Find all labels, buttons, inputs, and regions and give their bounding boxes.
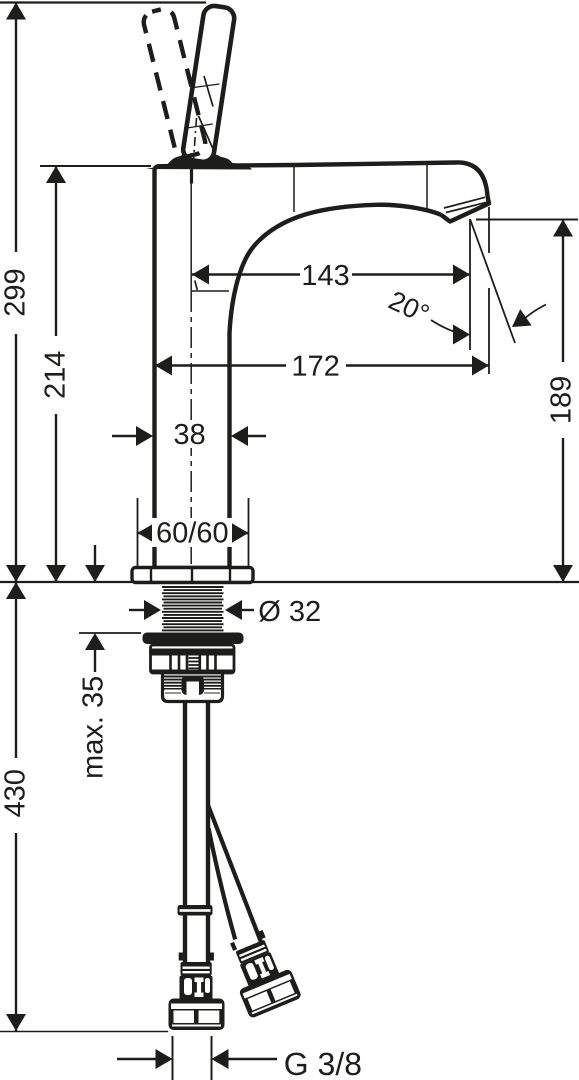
text 299 (2, 252, 30, 334)
dim 60/60 arrow left (138, 523, 155, 543)
dim 38 right tail (248, 435, 266, 437)
dim 20deg arrow at vertical ref (453, 325, 470, 345)
base plate divider 2 (191, 569, 193, 581)
diagonal hose right edge (208, 805, 265, 951)
mounting nut bottom band (151, 670, 235, 674)
dim 60/60 line (138, 532, 249, 534)
text 172 (294, 355, 339, 375)
aerator face line 2 (444, 197, 485, 208)
text max. 35 (82, 677, 103, 777)
dim 189 line (562, 220, 564, 583)
dim 189 arrow up (553, 220, 573, 237)
dim 430 arrow up (6, 582, 26, 599)
dim 143 tick (195, 281, 198, 291)
spout panel line right (426, 165, 428, 210)
dim 214 arrow up (46, 166, 66, 183)
connector crimp bumps (179, 953, 183, 961)
dim 299 line (15, 3, 17, 583)
base plate divider 1 (150, 569, 152, 581)
dim 20deg leader arc right (524, 305, 546, 320)
shank lower white band (165, 690, 221, 697)
connector body (180, 976, 213, 1001)
dim 143 line (192, 273, 470, 275)
countertop line (0, 581, 579, 583)
extension line 172 at spout tip (488, 207, 490, 374)
hose connection tab (182, 676, 205, 696)
vertical ref line at spout outlet (469, 219, 471, 350)
text 60/60 (152, 518, 232, 547)
dim max35 upper arrow line (94, 545, 96, 582)
diagonal hose left edge (209, 828, 236, 939)
dim 214 extension line (40, 165, 151, 167)
handle dashed (open position) (141, 7, 207, 159)
mounting nut center threads (189, 658, 199, 668)
threaded shank lower (162, 677, 224, 689)
hose connection tab window (187, 682, 200, 696)
aerator face line 1 (446, 202, 487, 212)
dim 172 arrow left (155, 356, 172, 376)
dim 299 top extension line (0, 1, 206, 3)
dim max35 upper arrow down (85, 565, 105, 582)
threaded shank upper (162, 587, 224, 630)
faucet centerline upper solid (190, 172, 192, 291)
dim 299 arrow up (6, 3, 26, 20)
text 20 deg (388, 292, 429, 317)
connector nut (169, 999, 225, 1031)
straight hose right wall (206, 700, 210, 963)
handle inner diagonal 2 (199, 116, 214, 150)
hose coupling white band (180, 909, 211, 912)
dim 214 arrow down (46, 565, 66, 582)
dim G3/8 right tail (229, 1058, 278, 1060)
dim 189 arrow down (553, 565, 573, 582)
dim max35 extension line (79, 632, 141, 634)
dim 143 arrow right (453, 265, 470, 285)
handle inner cross line 2 (187, 124, 213, 128)
dim dia32 left tail (129, 609, 144, 611)
dim 189 extension line (476, 219, 578, 221)
handle solid (closed position) (182, 4, 236, 163)
faucet centerline dash-dot (190, 291, 192, 566)
dim 430 line (15, 582, 17, 1031)
connector band (181, 962, 212, 976)
dim 299 arrow down (6, 565, 26, 582)
dim G3/8 arrow right-pointing (156, 1049, 173, 1069)
dim G3/8 extension lines (173, 1036, 212, 1080)
handle pivot escutcheon blob (146, 153, 252, 169)
faucet body and spout outline (155, 162, 490, 568)
diagonal hose connector (221, 926, 302, 1019)
spout panel line left (293, 167, 295, 212)
text 143 (304, 265, 349, 286)
dim 143 arrow left (192, 265, 209, 285)
centerline stub below handle (190, 169, 193, 184)
dim 172 line (155, 364, 489, 366)
water stream 20 deg line (470, 219, 515, 343)
text 430 (2, 758, 30, 833)
handle inner diagonal 1 (204, 76, 213, 107)
dim 38 arrow left-pointing (231, 426, 248, 446)
text dia 32 (259, 600, 319, 622)
dim 430 arrow down (6, 1014, 26, 1031)
dim 38 arrow right-pointing (136, 426, 153, 446)
extension tick at y291 (192, 290, 229, 292)
mounting nut top band (151, 649, 235, 656)
shank lower gray line segs (165, 692, 220, 694)
dim 20deg arrow at stream line (512, 309, 532, 327)
dim dia32 arrow left-pointing (225, 600, 242, 620)
dim 214 line (55, 166, 57, 582)
dim max35 line (94, 650, 96, 672)
text 38 (170, 420, 210, 448)
mounting nut dividers (171, 655, 216, 670)
shank flange washer (143, 633, 244, 645)
dim max35 arrow up (85, 633, 105, 650)
dim 172 arrow right (472, 356, 489, 376)
dim dia32 right tail (242, 609, 254, 611)
base plate divider 3 (229, 569, 231, 581)
dim 20deg leader arc left (431, 320, 464, 335)
straight hose left wall (183, 700, 187, 963)
shank lower outline with rounded bottom (163, 674, 223, 702)
dim G3/8 left tail (117, 1058, 156, 1060)
dim 430 bottom extension line (0, 1031, 168, 1033)
text 189 (549, 362, 577, 438)
base plate (132, 568, 253, 583)
handle inner cross line 1 (194, 84, 220, 88)
dim dia32 arrow right-pointing (144, 600, 161, 620)
dim 60/60 arrow right (232, 523, 249, 543)
text 214 (42, 336, 70, 414)
dim G3/8 arrow left-pointing (212, 1049, 229, 1069)
dim 60/60 extension lines (138, 498, 249, 567)
handle inner dash-dot centerline (194, 118, 197, 160)
hose coupling on straight hose (178, 905, 213, 916)
dim 38 left tail (112, 435, 136, 437)
text G 3/8 (285, 1052, 360, 1076)
mounting nut outline (151, 645, 235, 673)
straight hose connector (169, 953, 225, 1031)
